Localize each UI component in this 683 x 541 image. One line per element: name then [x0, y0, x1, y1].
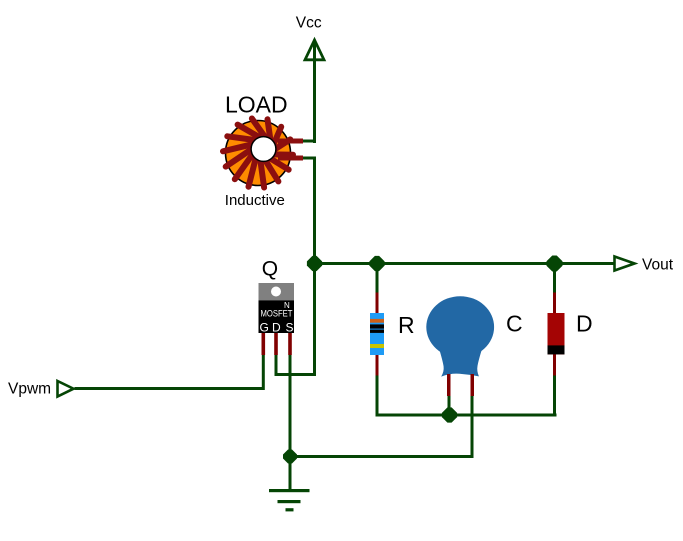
wire C right to source junction: [290, 455, 474, 458]
svg-text:G: G: [260, 321, 269, 335]
node junction at C left lead: [442, 407, 457, 422]
wire Vpwm to gate: [75, 387, 264, 390]
wire inductor bottom lead to drain line: [303, 157, 316, 160]
node junction at source/ground: [283, 450, 297, 464]
svg-text:MOSFET: MOSFET: [261, 309, 293, 320]
diode D: [548, 264, 565, 416]
inductor L1 toroid: [223, 119, 303, 188]
svg-text:S: S: [286, 321, 294, 335]
wire C left lead down to junction: [448, 396, 451, 415]
capacitor C disc: [426, 296, 494, 396]
node junction at R top: [369, 256, 384, 271]
svg-text:C: C: [506, 311, 523, 337]
transistor pin D: [274, 333, 278, 355]
capacitor C lead left: [447, 374, 451, 396]
wire R top: [376, 264, 379, 293]
node junction at drain/rail: [307, 256, 322, 271]
wire drain pin vertical: [275, 355, 278, 376]
capacitor C lead right: [471, 374, 475, 396]
wire C right lead down: [471, 396, 474, 458]
svg-text:LOAD: LOAD: [225, 92, 288, 118]
svg-text:Vout: Vout: [642, 257, 674, 274]
transistor pin G: [262, 333, 266, 355]
port Vout arrow: [615, 257, 635, 271]
wire D top: [553, 264, 556, 293]
wire drain pin horizontal to drain line: [275, 373, 317, 376]
svg-text:R: R: [398, 312, 415, 338]
wire gate vertical: [262, 355, 265, 390]
wire R bottom: [376, 376, 379, 416]
svg-text:Vpwm: Vpwm: [8, 380, 51, 397]
port Vpwm arrow: [58, 381, 74, 397]
svg-text:Inductive: Inductive: [225, 192, 285, 209]
svg-text:Vcc: Vcc: [296, 15, 322, 32]
wire D bottom: [553, 376, 556, 416]
svg-text:D: D: [576, 311, 593, 337]
wire drain vertical: [313, 157, 316, 376]
wire inductor top lead to Vcc line: [303, 140, 316, 143]
inductor lead top: [278, 139, 303, 144]
svg-text:Q: Q: [262, 257, 278, 280]
transistor pin S: [288, 333, 292, 355]
wire source vertical: [289, 355, 292, 490]
transistor Q MOSFET package: [259, 283, 295, 355]
power symbol Vcc triangle: [305, 40, 324, 60]
resistor R: [370, 264, 384, 416]
node junction at D top: [547, 256, 563, 272]
wire bottom rail R to D: [376, 414, 557, 417]
wire Vcc vertical: [313, 40, 316, 144]
ground symbol: [269, 489, 310, 511]
wire top rail: [313, 262, 614, 265]
inductor lead bottom: [278, 156, 303, 161]
transistor tab mounting hole: [271, 287, 281, 297]
svg-text:D: D: [272, 321, 281, 335]
